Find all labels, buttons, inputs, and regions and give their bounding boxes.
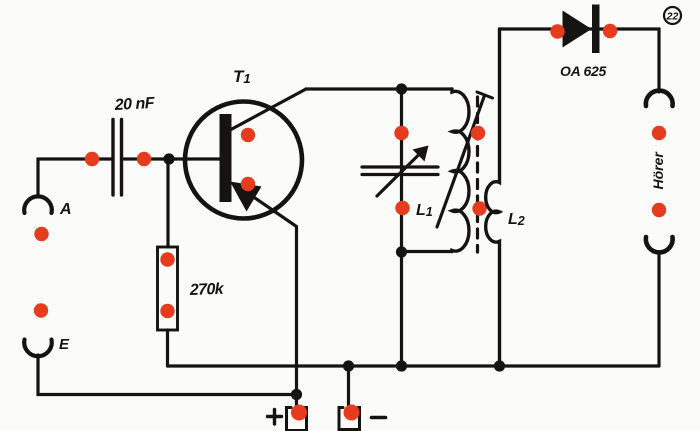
- solder dot (minus): [344, 405, 360, 421]
- emitter arrow (PNP): [230, 182, 262, 212]
- solder dot (A-E column): [34, 227, 48, 241]
- svg-text:A: A: [59, 201, 72, 218]
- phones terminal bottom: [646, 237, 673, 252]
- solder dot: [137, 152, 151, 166]
- bottom rail: [168, 364, 660, 367]
- solder dot: [652, 203, 666, 217]
- wire A to capacitor: [38, 159, 111, 196]
- solder dot: [652, 126, 666, 140]
- core bar: [477, 92, 493, 98]
- resistor R1 270k: [158, 247, 178, 330]
- wire phones to rail: [657, 254, 660, 366]
- junction node L2 to rail: [494, 360, 505, 371]
- wire collector rail to tank: [306, 87, 452, 90]
- wire resistor to rail: [166, 330, 169, 366]
- phones terminal top: [646, 91, 673, 106]
- wire top L2 to phones: [500, 29, 660, 92]
- solder dot: [394, 126, 408, 140]
- inductor L2: [486, 29, 500, 366]
- svg-text:OA 625: OA 625: [560, 63, 606, 79]
- svg-text:E: E: [59, 336, 70, 353]
- wire tank bottom to L1: [402, 250, 453, 253]
- junction node tank to rail: [396, 360, 407, 371]
- collector lead: [231, 89, 306, 130]
- battery socket minus: [339, 408, 360, 430]
- solder dot: [85, 152, 99, 166]
- junction node base/resistor: [163, 153, 174, 164]
- wire tank bottom to rail: [400, 252, 403, 366]
- svg-text:L2: L2: [508, 211, 525, 228]
- solder dot (collector): [241, 128, 255, 142]
- diode D1 OA625: [563, 5, 600, 54]
- solder dot: [472, 201, 486, 215]
- transistor T1: [185, 89, 306, 407]
- svg-text:22: 22: [666, 11, 679, 23]
- svg-text:20 nF: 20 nF: [113, 95, 156, 114]
- junction node top of tank: [396, 83, 407, 94]
- junction node (emitter / E / + battery): [291, 389, 302, 400]
- variable capacitor C2: [362, 89, 438, 252]
- solder dot: [471, 126, 485, 140]
- capacitor C1 20nF: [113, 120, 122, 196]
- emitter lead: [236, 185, 297, 407]
- wire minus battery: [347, 366, 350, 407]
- solder dot (A-E column): [34, 303, 48, 317]
- inductor L1: [452, 89, 469, 252]
- svg-text:L1: L1: [416, 202, 433, 219]
- coupling dashed line: [476, 97, 479, 252]
- solder dot: [550, 24, 564, 38]
- battery socket plus: [287, 408, 307, 431]
- solder dot: [160, 304, 174, 318]
- junction node bottom of tank: [396, 246, 407, 257]
- solder dot: [160, 252, 174, 266]
- terminal A: [24, 196, 52, 213]
- wire junction to resistor: [166, 159, 169, 247]
- solder dot (plus): [291, 405, 307, 421]
- terminal E: [24, 340, 52, 357]
- junction node minus battery: [343, 360, 354, 371]
- adjustable core arrow: [437, 96, 485, 228]
- wire capacitor to base: [124, 157, 221, 160]
- solder dot (emitter): [241, 177, 255, 191]
- plus sign: [268, 410, 282, 425]
- issue mark circled 22: [664, 7, 681, 24]
- wire E to lower rail: [38, 355, 297, 395]
- minus sign: [372, 416, 386, 420]
- svg-text:270k: 270k: [189, 281, 225, 299]
- solder dot: [603, 24, 617, 38]
- svg-text:Hörer: Hörer: [650, 151, 666, 190]
- solder dot: [395, 201, 409, 215]
